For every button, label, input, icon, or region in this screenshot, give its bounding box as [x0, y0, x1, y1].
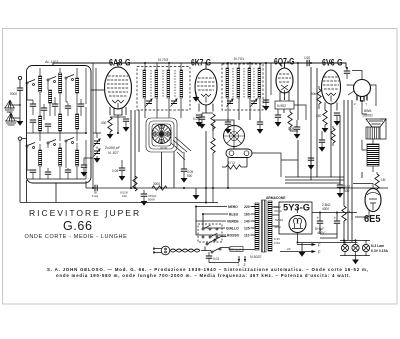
resistor 47k vertical	[133, 176, 137, 191]
svg-text:140: 140	[244, 220, 250, 224]
svg-text:110: 110	[244, 234, 250, 238]
F arrow 2	[280, 251, 314, 253]
lamp wires	[340, 240, 370, 259]
svg-text:G.66: G.66	[63, 219, 93, 233]
rectifier box	[279, 202, 312, 234]
grounds 6V6	[322, 128, 329, 133]
svg-text:N.3 Lam: N.3 Lam	[371, 244, 384, 248]
cap row3 b	[45, 172, 51, 174]
tube 6A8-G pins	[110, 107, 126, 116]
long AVC bus	[86, 187, 388, 189]
wire earth into box	[20, 139, 27, 203]
ground arrow near 6K7	[193, 97, 200, 102]
svg-text:500: 500	[187, 174, 193, 178]
coil bar L9	[59, 148, 62, 166]
IF coil bar C	[248, 68, 251, 98]
wire box bottom to bus	[27, 180, 57, 202]
tube 6V6-G electrodes	[323, 77, 339, 102]
svg-text:2A: 2A	[287, 247, 291, 251]
GIALLO tag	[230, 247, 243, 252]
svg-text:S. A. JOHN GELOSO. — Mod. G. 6: S. A. JOHN GELOSO. — Mod. G. 66. – Produ…	[47, 267, 369, 272]
wires lower section	[27, 140, 86, 179]
osc box wires	[145, 63, 181, 118]
band switch rotor	[152, 125, 171, 144]
svg-text:500V: 500V	[148, 198, 155, 202]
IF coil bar B	[237, 68, 240, 98]
series cap gap wires	[85, 181, 87, 188]
svg-text:340V: 340V	[274, 225, 281, 229]
cap under 6V6 b	[308, 158, 314, 160]
variable cap 2	[94, 149, 101, 157]
svg-text:50k: 50k	[311, 92, 317, 96]
verticals mid	[131, 110, 139, 188]
cap 470pF	[141, 194, 147, 196]
switch wires	[221, 237, 253, 250]
svg-text:ROSSO: ROSSO	[227, 234, 240, 238]
6E5 electrodes	[367, 193, 379, 210]
coil bar L1	[39, 76, 42, 92]
rectifier tube 5Y3	[289, 216, 306, 233]
mid bus inside box	[27, 132, 86, 134]
svg-text:3000: 3000	[153, 182, 160, 186]
cap row2 a	[30, 120, 36, 122]
wire box to 6A8 grid	[91, 89, 104, 91]
ground cathode	[107, 134, 114, 139]
6K7 cathode resistor	[211, 114, 215, 129]
antenna counterpoise symbol lower	[5, 113, 17, 125]
svg-text:F: F	[318, 243, 321, 248]
svg-text:4000: 4000	[322, 207, 329, 211]
motor circle	[224, 126, 245, 147]
resistor 3000 on bus	[152, 186, 167, 190]
filter capacitor 1	[317, 221, 323, 223]
voice coil block	[366, 127, 380, 139]
cap row1 b	[41, 108, 47, 110]
svg-text:0.05: 0.05	[288, 127, 294, 131]
ground bypass	[123, 127, 130, 132]
pilot lamp 3	[362, 244, 369, 251]
svg-text:RICEVITORE ∫UPER: RICEVITORE ∫UPER	[29, 208, 141, 218]
svg-text:500: 500	[344, 189, 350, 193]
coil bar L3	[59, 73, 62, 93]
lower switch S2c	[65, 138, 74, 144]
bleeder resistor	[342, 206, 346, 221]
svg-text:N.952: N.952	[277, 104, 286, 108]
band switch S1a	[26, 80, 35, 86]
6E5 wires	[353, 172, 377, 217]
transformer core	[262, 200, 267, 252]
svg-text:2.5A: 2.5A	[274, 241, 280, 245]
resistor 17ohm	[226, 165, 241, 169]
rectifier wires	[272, 207, 298, 243]
svg-text:N.703: N.703	[158, 58, 168, 62]
osc coil bar C	[167, 70, 170, 98]
field coil block	[367, 144, 379, 166]
osc coil bar B	[155, 70, 158, 98]
pilot lamp 2	[352, 244, 359, 251]
coil bar L6	[59, 114, 62, 131]
gang ground	[94, 158, 101, 163]
F arrow 1	[297, 244, 314, 246]
cathode bypass cap	[123, 119, 129, 121]
cap row2 b	[45, 124, 51, 126]
svg-text:GIALLO: GIALLO	[226, 227, 239, 231]
terminals 2 2	[239, 256, 245, 262]
ground 6Q7	[275, 122, 282, 127]
svg-text:F: F	[318, 250, 321, 255]
cap row1 e	[78, 104, 84, 106]
tube 6A8-G top cap	[117, 63, 119, 67]
primary top/bottom wires	[251, 207, 255, 250]
svg-text:0.01: 0.01	[213, 257, 219, 261]
grid leak resistor	[288, 112, 292, 127]
svg-text:+: +	[317, 216, 320, 221]
tube 6E5 envelope	[365, 189, 381, 212]
lower section switch S2a	[26, 143, 35, 149]
cap between IF and 6Q7	[263, 100, 269, 102]
svg-text:8W6: 8W6	[364, 109, 371, 113]
cap 0.05 mid-left	[119, 168, 125, 170]
svg-text:6E5: 6E5	[364, 214, 381, 225]
series cap on AVC bus	[95, 185, 97, 191]
tube 6A8-G electrodes	[107, 76, 129, 109]
svg-text:NERO: NERO	[228, 205, 238, 209]
tube 6Q7-G electrodes	[278, 74, 291, 93]
IF box wires	[228, 63, 260, 118]
chassis bus	[20, 202, 218, 204]
svg-text:6V6-G: 6V6-G	[322, 58, 343, 68]
antenna terminal	[18, 76, 21, 79]
antenna wires	[10, 80, 20, 122]
coupling capacitor top	[307, 60, 309, 66]
pilot lamp 1	[341, 244, 348, 251]
motor capsule	[226, 149, 252, 158]
motor feeds	[213, 120, 247, 189]
transformer primary coil	[255, 203, 259, 250]
svg-text:Freq: Freq	[92, 194, 99, 198]
tube 6K7-G top cap	[205, 63, 207, 69]
coupling cap 6Q7	[275, 115, 281, 117]
ground arrow at selector top	[193, 195, 200, 200]
tube 6V6-G envelope	[322, 70, 341, 104]
osc coil bar D	[180, 70, 183, 98]
gang wires	[93, 133, 101, 158]
svg-text:ARMACONE: ARMACONE	[266, 196, 286, 200]
svg-text:0.05: 0.05	[112, 169, 118, 173]
cap under IF box	[225, 122, 231, 124]
earth terminal	[18, 137, 21, 140]
cord wires	[201, 247, 211, 251]
tube 6Q7-G top cap	[284, 63, 286, 68]
AVC cap and ground	[81, 165, 87, 167]
antenna counterpoise symbol upper	[4, 100, 15, 112]
5Y3 anodes	[292, 218, 303, 228]
right bundle horizontals	[285, 177, 344, 183]
variable cap 1	[94, 139, 101, 147]
tube 6K7-G pins	[199, 104, 213, 114]
tube 6K7-G electrodes	[197, 78, 215, 103]
cap right mid	[294, 127, 300, 129]
extra bus dots	[144, 62, 363, 189]
junction dots top bus	[117, 62, 119, 64]
mains switch	[206, 237, 221, 254]
resistor under 6V6	[331, 128, 335, 143]
svg-text:17 Ω: 17 Ω	[228, 161, 235, 165]
tube 6K7-G envelope	[195, 69, 217, 105]
IF drops	[228, 112, 260, 120]
cap row1 d	[65, 106, 71, 108]
coil bar L8	[39, 150, 42, 166]
screen bypass cap	[344, 71, 350, 73]
IF trimmer T2	[251, 99, 258, 107]
svg-text:5Y3-G: 5Y3-G	[283, 203, 310, 214]
selector box	[198, 224, 222, 242]
twisted cord	[170, 249, 200, 252]
svg-text:onde media 190-580 m, onde lun: onde media 190-580 m, onde lunghe 700-20…	[56, 273, 351, 278]
terminal arrowheads 2 2	[238, 259, 246, 262]
coil bar L2	[49, 90, 52, 103]
svg-text:160: 160	[244, 213, 250, 217]
mains plug	[154, 246, 170, 255]
cap row1 a	[30, 104, 36, 106]
vertical feeds right of box	[93, 63, 96, 188]
tube 6Q7-G pins	[280, 92, 289, 100]
wire motor capsule to transformer	[252, 153, 298, 177]
tap wires	[196, 207, 256, 236]
cap 0.05 500 mid	[181, 169, 187, 171]
coil bar L5	[39, 116, 42, 131]
svg-text:6A8-G: 6A8-G	[109, 58, 131, 68]
right bundle verticals	[340, 100, 352, 240]
component box N.952	[275, 101, 294, 109]
IF box outline	[222, 64, 263, 110]
grid resistor 6V6	[317, 89, 321, 104]
6E5 grid resistor 1M	[375, 174, 379, 189]
svg-text:N.701: N.701	[234, 57, 244, 61]
svg-text:10k: 10k	[122, 194, 127, 198]
cap under IF right	[257, 122, 263, 124]
selector contacts	[202, 225, 218, 238]
svg-text:N.5037: N.5037	[250, 255, 262, 259]
coil bar L10	[76, 150, 79, 166]
grounds 6K7	[196, 122, 203, 127]
cap 0.01	[206, 256, 212, 258]
misc right	[298, 140, 362, 178]
svg-text:2x390 pF: 2x390 pF	[104, 146, 121, 150]
6Q7 drops	[280, 99, 298, 131]
rotor rings	[146, 118, 177, 152]
top bus wire	[53, 63, 346, 68]
speaker socket	[354, 80, 371, 97]
lower switch S2b	[47, 140, 56, 146]
volume drop	[212, 124, 214, 131]
cathode cap	[334, 113, 340, 115]
speaker wires	[362, 101, 386, 172]
right verticals	[298, 63, 331, 180]
B+ wires	[298, 213, 358, 243]
svg-text:BLEU: BLEU	[229, 213, 239, 217]
6K7 cathode cap	[196, 115, 202, 117]
volume control resistor	[211, 138, 215, 153]
transformer secondary coil	[268, 201, 272, 251]
coil bar L7	[76, 114, 79, 129]
primary tap labels	[226, 205, 250, 238]
svg-text:1/20: 1/20	[304, 56, 310, 60]
osc box outline	[137, 67, 190, 111]
svg-text:400: 400	[101, 121, 107, 125]
osc coil bar A	[143, 70, 146, 98]
filter capacitor 2	[334, 221, 340, 223]
cap 0.02 on bus	[337, 185, 343, 187]
svg-text:0.05: 0.05	[193, 117, 199, 121]
svg-text:GIALLO: GIALLO	[231, 248, 242, 252]
svg-text:220: 220	[244, 205, 250, 209]
cap row1 c	[52, 104, 58, 106]
svg-text:1M: 1M	[381, 178, 386, 182]
wire 6K7 plate down	[205, 105, 207, 203]
cap row3 a	[30, 170, 36, 172]
svg-text:70mA: 70mA	[274, 209, 282, 213]
cathode resistor 400	[108, 117, 112, 132]
tube 6V6-G pins	[325, 103, 337, 112]
osc trimmers	[146, 99, 153, 107]
lamps ground	[352, 260, 359, 265]
wires under 6A8	[110, 115, 126, 134]
socket wires	[347, 71, 377, 107]
wires between IF and 6Q7	[266, 63, 271, 110]
ground B-	[299, 252, 306, 257]
socket pins	[357, 95, 367, 102]
cathode resistor 250	[323, 110, 327, 125]
IF coil bar D	[258, 68, 261, 98]
svg-text:5000: 5000	[10, 92, 17, 96]
svg-text:+: +	[334, 216, 337, 221]
IF trimmer T1	[227, 99, 234, 107]
band switch S1b	[47, 77, 56, 83]
tube 6Q7-G envelope	[276, 68, 293, 93]
svg-text:5k: 5k	[347, 210, 351, 214]
IF coil bar A	[226, 68, 229, 98]
svg-text:6.3V 0.15A: 6.3V 0.15A	[371, 249, 389, 253]
svg-text:ONDE CORTE - MEDIE - LUNGHE: ONDE CORTE - MEDIE - LUNGHE	[25, 234, 128, 240]
tube 6A8-G envelope	[105, 67, 132, 109]
coil box outline	[27, 66, 92, 184]
wires top section	[27, 68, 86, 141]
wire 6Q7 to bundle	[294, 105, 306, 120]
cap row3 c	[65, 170, 71, 172]
svg-text:6K7-G: 6K7-G	[191, 58, 211, 68]
antenna series capacitor 5000	[17, 88, 23, 90]
svg-text:VERDE: VERDE	[227, 220, 239, 224]
svg-text:comp: comp	[160, 146, 168, 150]
grid cap 0.05 under 6K7	[199, 117, 205, 119]
coil bar L4	[76, 78, 79, 93]
cap under 6V6 a	[319, 140, 325, 142]
antenna ground arrow	[17, 121, 24, 126]
svg-text:N. 827: N. 827	[108, 151, 120, 155]
fan-out wires from rotor	[171, 137, 191, 160]
svg-text:125: 125	[244, 227, 250, 231]
band switch S1c	[65, 75, 74, 81]
speaker cone	[366, 119, 386, 127]
